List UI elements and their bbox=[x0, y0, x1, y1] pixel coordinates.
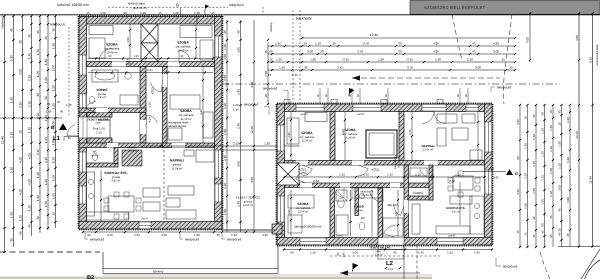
svg-text:45: 45 bbox=[36, 30, 40, 34]
window right-building top W3 bbox=[466, 104, 478, 112]
bedroom3 left wall bbox=[163, 67, 168, 144]
svg-text:27.66 m²: 27.66 m² bbox=[423, 149, 433, 152]
svg-text:1.30: 1.30 bbox=[28, 53, 32, 59]
hall dim line bbox=[88, 72, 213, 74]
dashed pipe curve right bbox=[503, 14, 512, 104]
svg-text:1.10: 1.10 bbox=[233, 108, 239, 112]
downpipe dashed bbox=[68, 27, 70, 117]
svg-text:4.20: 4.20 bbox=[19, 189, 23, 195]
svg-text:10: 10 bbox=[524, 116, 528, 120]
wall entry/kitchen bbox=[404, 165, 409, 238]
svg-text:45: 45 bbox=[223, 30, 227, 34]
svg-text:1.10: 1.10 bbox=[455, 173, 461, 177]
svg-text:30: 30 bbox=[19, 40, 23, 44]
svg-text:90: 90 bbox=[127, 58, 130, 61]
top dimension chains over right building bbox=[302, 37, 515, 39]
svg-text:3.55: 3.55 bbox=[127, 37, 130, 43]
insulation dotted edge right bbox=[222, 16, 224, 229]
svg-text:BELÉPŐ: BELÉPŐ bbox=[388, 203, 399, 207]
terrace edge lines bbox=[222, 229, 277, 231]
wc right wall bbox=[114, 148, 118, 164]
svg-text:1.50: 1.50 bbox=[36, 195, 40, 201]
svg-text:2.15: 2.15 bbox=[36, 149, 40, 155]
terrace door right wall bbox=[215, 150, 223, 178]
chimney shaft right building bbox=[277, 163, 299, 185]
svg-text:lefolyócső: lefolyócső bbox=[1, 15, 5, 28]
gallery dashed line kitchen bbox=[163, 150, 165, 221]
window left wall W5 bbox=[79, 152, 87, 172]
kitchen table and chairs bbox=[108, 196, 134, 212]
svg-text:1.50: 1.50 bbox=[524, 143, 528, 149]
svg-text:2.25: 2.25 bbox=[343, 57, 349, 61]
svg-text:45: 45 bbox=[44, 36, 48, 40]
marker flag top of right building bbox=[349, 88, 354, 94]
svg-text:1.20: 1.20 bbox=[44, 179, 48, 185]
small flag top bbox=[205, 5, 209, 10]
svg-text:4.00: 4.00 bbox=[250, 177, 254, 183]
dashed projection lines to right building bbox=[292, 10, 294, 104]
svg-text:1.50: 1.50 bbox=[532, 134, 536, 140]
left vertical dimension chains bbox=[4, 16, 6, 252]
svg-text:45: 45 bbox=[57, 100, 61, 104]
dashed downpipe from grey bar bbox=[452, 14, 462, 60]
svg-text:sm. parketta: sm. parketta bbox=[296, 207, 311, 210]
svg-text:90: 90 bbox=[290, 250, 294, 254]
svg-text:12.06 m²: 12.06 m² bbox=[298, 210, 309, 213]
tv cabinet bbox=[184, 150, 194, 156]
svg-text:2.50: 2.50 bbox=[237, 89, 241, 95]
svg-text:4.20: 4.20 bbox=[493, 41, 499, 45]
svg-text:3.70: 3.70 bbox=[363, 41, 369, 45]
interior dim verticals right building bbox=[290, 112, 292, 160]
section line to entry bbox=[0, 117, 62, 119]
svg-text:1.20: 1.20 bbox=[133, 55, 139, 58]
svg-text:3.45: 3.45 bbox=[337, 65, 343, 69]
bed szoba3 right bbox=[288, 195, 314, 208]
svg-text:lefolyócső: lefolyócső bbox=[90, 238, 104, 242]
insulation dotted edge bottom bbox=[79, 229, 222, 231]
svg-text:9.81 m²: 9.81 m² bbox=[112, 180, 121, 183]
svg-text:1.50: 1.50 bbox=[418, 250, 424, 254]
svg-text:1.20: 1.20 bbox=[52, 157, 56, 163]
svg-text:2.25: 2.25 bbox=[409, 129, 412, 135]
svg-text:45: 45 bbox=[532, 114, 536, 118]
svg-text:90: 90 bbox=[60, 110, 64, 114]
entry shoe rack stripes bbox=[383, 218, 403, 236]
svg-text:SZOBA: SZOBA bbox=[177, 41, 189, 45]
svg-text:telekhatár: telekhatár bbox=[296, 17, 313, 21]
wall szoba1/szoba2 bbox=[330, 112, 335, 161]
left building left wall bbox=[79, 17, 87, 230]
svg-text:45: 45 bbox=[216, 233, 220, 237]
svg-text:12.40: 12.40 bbox=[370, 33, 378, 37]
svg-text:45: 45 bbox=[558, 232, 562, 236]
corridor bottom wall bbox=[285, 183, 433, 188]
insulation dotted edge left bbox=[78, 16, 80, 229]
svg-text:1.50: 1.50 bbox=[223, 129, 227, 135]
window left wall W5b bbox=[79, 186, 87, 204]
kitchen counters right bbox=[412, 204, 420, 234]
svg-text:2.10: 2.10 bbox=[467, 57, 473, 61]
svg-text:B: B bbox=[51, 125, 55, 131]
bath bottom wall bbox=[79, 108, 146, 113]
svg-text:40: 40 bbox=[264, 94, 268, 98]
svg-text:pel R2: pel R2 bbox=[357, 113, 365, 116]
covered terrace between buildings bbox=[222, 150, 277, 230]
svg-text:SZOBA: SZOBA bbox=[301, 131, 313, 135]
svg-text:1.10: 1.10 bbox=[315, 41, 321, 45]
insulation dotted edge top bbox=[79, 15, 222, 17]
svg-text:6.50: 6.50 bbox=[147, 69, 153, 72]
svg-text:30: 30 bbox=[398, 49, 402, 53]
svg-text:KÖZL.: KÖZL. bbox=[372, 168, 381, 172]
svg-text:2.40: 2.40 bbox=[223, 155, 227, 161]
svg-text:1.20: 1.20 bbox=[28, 205, 32, 211]
middle vertical dimension chains bbox=[226, 20, 228, 232]
wc fixture bbox=[92, 153, 97, 160]
roof overhang dash-dot right building bbox=[222, 83, 560, 85]
svg-text:5.35: 5.35 bbox=[10, 55, 14, 61]
svg-text:45: 45 bbox=[532, 234, 536, 238]
svg-text:1.40: 1.40 bbox=[46, 110, 52, 114]
svg-text:1.40: 1.40 bbox=[342, 252, 346, 258]
svg-text:4.50: 4.50 bbox=[149, 117, 152, 123]
svg-text:30: 30 bbox=[19, 130, 23, 134]
svg-text:1.10: 1.10 bbox=[541, 175, 545, 181]
svg-text:90: 90 bbox=[123, 11, 127, 15]
svg-text:1.20: 1.20 bbox=[223, 44, 227, 50]
dining table right bbox=[453, 176, 473, 190]
svg-text:szomszédos telek: szomszédos telek bbox=[596, 44, 599, 66]
svg-text:3.00: 3.00 bbox=[237, 47, 241, 53]
svg-text:90: 90 bbox=[336, 252, 340, 256]
svg-text:90: 90 bbox=[181, 55, 184, 58]
svg-text:1.50: 1.50 bbox=[173, 11, 179, 15]
svg-text:3.00: 3.00 bbox=[566, 197, 570, 203]
svg-text:lefolyócső: lefolyócső bbox=[50, 23, 65, 27]
svg-text:lefolyócső: lefolyócső bbox=[227, 238, 241, 242]
svg-text:1.30: 1.30 bbox=[28, 127, 32, 133]
svg-text:3.70: 3.70 bbox=[357, 49, 363, 53]
svg-text:4.20: 4.20 bbox=[19, 157, 23, 163]
bath fixtures right bbox=[338, 198, 344, 208]
corridor top wall bbox=[285, 161, 485, 166]
svg-text:2.10: 2.10 bbox=[28, 101, 32, 107]
svg-text:1.10: 1.10 bbox=[532, 161, 536, 167]
svg-text:1.20: 1.20 bbox=[310, 57, 316, 61]
neighbour outbuilding grey bar bbox=[410, 1, 600, 15]
short top vertical 4.00 bbox=[529, 14, 531, 63]
svg-text:B: B bbox=[515, 171, 518, 176]
svg-text:turbócső 100/60 mm: turbócső 100/60 mm bbox=[57, 3, 89, 7]
svg-text:KONYHA ÉTK.: KONYHA ÉTK. bbox=[446, 206, 465, 210]
bathroom fixtures bbox=[92, 70, 118, 82]
svg-text:3.95: 3.95 bbox=[288, 132, 291, 138]
svg-text:lefolyócső: lefolyócső bbox=[503, 265, 517, 269]
svg-text:1.50: 1.50 bbox=[524, 203, 528, 209]
right cluster bottom connector bbox=[558, 245, 600, 247]
svg-text:3.00: 3.00 bbox=[19, 69, 23, 75]
kitchen top wall bbox=[79, 143, 167, 148]
svg-text:1.20: 1.20 bbox=[378, 57, 384, 61]
svg-text:KONYHA+ ÉTK.: KONYHA+ ÉTK. bbox=[104, 171, 127, 175]
bath divider bbox=[355, 188, 359, 216]
svg-text:1.10: 1.10 bbox=[10, 97, 14, 103]
svg-text:1.90: 1.90 bbox=[279, 65, 285, 69]
svg-text:12.40: 12.40 bbox=[588, 176, 592, 184]
svg-text:1.50: 1.50 bbox=[100, 11, 106, 15]
svg-text:1.20: 1.20 bbox=[36, 172, 40, 178]
svg-text:3.00: 3.00 bbox=[307, 49, 313, 53]
wall bath/entry bbox=[378, 188, 383, 238]
svg-text:1.50: 1.50 bbox=[532, 188, 536, 194]
svg-text:1.20: 1.20 bbox=[447, 250, 453, 254]
svg-text:15: 15 bbox=[509, 65, 513, 69]
svg-text:1.60: 1.60 bbox=[435, 57, 441, 61]
svg-text:belet: belet bbox=[96, 121, 101, 124]
svg-text:10: 10 bbox=[558, 228, 562, 232]
svg-text:3.00: 3.00 bbox=[161, 233, 167, 237]
wc bottom wall bbox=[87, 163, 119, 167]
window right-building top W1 bbox=[296, 104, 324, 112]
bottom dimension line left building bbox=[83, 231, 284, 233]
svg-text:30: 30 bbox=[320, 49, 324, 53]
svg-text:7.21 m²: 7.21 m² bbox=[299, 172, 308, 175]
svg-text:átsz 95.cm: átsz 95.cm bbox=[133, 6, 147, 10]
svg-text:45: 45 bbox=[549, 215, 553, 219]
svg-text:2.10: 2.10 bbox=[233, 142, 239, 146]
property boundary line telekhatar bbox=[0, 14, 600, 16]
svg-text:1.10: 1.10 bbox=[549, 191, 553, 197]
svg-text:15: 15 bbox=[269, 57, 273, 61]
svg-text:lefolyócső: lefolyócső bbox=[497, 86, 511, 90]
svg-text:30: 30 bbox=[28, 34, 32, 38]
left building right wall bbox=[215, 17, 223, 230]
entry door bottom bbox=[378, 238, 404, 246]
svg-text:1.50: 1.50 bbox=[549, 125, 553, 131]
svg-text:1.10: 1.10 bbox=[541, 128, 545, 134]
door arcs left building bbox=[99, 49, 112, 62]
living top wall bbox=[163, 143, 215, 148]
svg-text:15: 15 bbox=[516, 230, 520, 234]
svg-text:45: 45 bbox=[472, 49, 476, 53]
insulation dotted edge left right bldg bbox=[275, 104, 277, 245]
svg-text:45: 45 bbox=[264, 50, 268, 54]
arrow under dimension block bbox=[352, 77, 500, 79]
svg-text:2.40: 2.40 bbox=[237, 201, 241, 207]
svg-text:3.00: 3.00 bbox=[493, 49, 499, 53]
flag marker bottom bbox=[353, 263, 359, 270]
bed szoba2 (dark rect) bbox=[366, 130, 397, 158]
svg-text:45: 45 bbox=[541, 230, 545, 234]
svg-text:létkövű sóba: létkövű sóba bbox=[128, 2, 145, 6]
svg-text:3.00: 3.00 bbox=[237, 161, 241, 167]
svg-text:90: 90 bbox=[47, 102, 51, 106]
entry door leaf bbox=[98, 119, 110, 121]
svg-text:90: 90 bbox=[549, 234, 553, 238]
svg-text:45: 45 bbox=[472, 41, 476, 45]
svg-text:15: 15 bbox=[268, 73, 272, 77]
svg-text:6.20: 6.20 bbox=[566, 157, 570, 163]
svg-text:1.25: 1.25 bbox=[44, 137, 48, 143]
svg-text:55x115 cm: 55x115 cm bbox=[398, 156, 401, 168]
svg-text:1.20: 1.20 bbox=[310, 250, 316, 254]
svg-text:3.00: 3.00 bbox=[107, 233, 113, 237]
svg-text:3.95: 3.95 bbox=[516, 119, 520, 125]
svg-text:1.41: 1.41 bbox=[395, 211, 398, 217]
terrace dimension line bbox=[140, 145, 300, 147]
svg-text:45: 45 bbox=[10, 28, 14, 32]
svg-text:1.10: 1.10 bbox=[387, 173, 393, 177]
svg-text:NAPPALI: NAPPALI bbox=[170, 159, 184, 163]
shower tray bbox=[336, 190, 347, 201]
washer note bbox=[352, 188, 382, 198]
svg-text:pel R2: pel R2 bbox=[300, 113, 308, 116]
bedroom3 furniture bbox=[170, 95, 200, 109]
window right-building bottom W1 bbox=[300, 238, 326, 246]
svg-text:2.80: 2.80 bbox=[342, 129, 345, 135]
wall szoba2/nappali bbox=[399, 112, 404, 161]
svg-text:szekrény: szekrény bbox=[127, 150, 137, 153]
svg-text:1.10: 1.10 bbox=[524, 173, 528, 179]
svg-text:2.40: 2.40 bbox=[237, 123, 241, 129]
svg-text:10: 10 bbox=[303, 41, 307, 45]
interior dim line bedroom2 vertical bbox=[195, 24, 197, 59]
svg-text:1.50: 1.50 bbox=[541, 151, 545, 157]
svg-text:30: 30 bbox=[36, 216, 40, 220]
svg-text:2.10: 2.10 bbox=[19, 102, 23, 108]
svg-text:1.20: 1.20 bbox=[66, 103, 72, 107]
pantry closet kamra bbox=[122, 150, 142, 166]
svg-text:FEDETT BELÉPŐ: FEDETT BELÉPŐ bbox=[370, 246, 391, 250]
svg-text:30: 30 bbox=[10, 238, 14, 242]
svg-text:3.00: 3.00 bbox=[352, 250, 358, 254]
svg-text:SZOBA: SZOBA bbox=[180, 109, 192, 113]
svg-text:20: 20 bbox=[541, 112, 545, 116]
svg-text:5.10: 5.10 bbox=[10, 167, 14, 173]
svg-text:1.30: 1.30 bbox=[44, 59, 48, 65]
svg-text:NAPPALI: NAPPALI bbox=[422, 144, 435, 148]
svg-text:2.10: 2.10 bbox=[10, 132, 14, 138]
svg-text:2.32: 2.32 bbox=[313, 179, 319, 183]
svg-text:1.50: 1.50 bbox=[134, 233, 140, 237]
svg-text:belet: belet bbox=[376, 250, 381, 253]
svg-text:4.20: 4.20 bbox=[433, 41, 439, 45]
left building top wall bbox=[79, 17, 222, 25]
window right-building bottom W2 bbox=[437, 238, 463, 246]
window left wall W4 bbox=[79, 94, 87, 108]
svg-text:10: 10 bbox=[549, 110, 553, 114]
hedge line soveny bbox=[0, 251, 100, 253]
svg-text:45: 45 bbox=[558, 110, 562, 114]
svg-text:1.50: 1.50 bbox=[558, 141, 562, 147]
svg-text:30: 30 bbox=[36, 93, 40, 97]
right vertical dimension chains bbox=[519, 105, 521, 247]
north compass symbol bbox=[583, 255, 600, 279]
terrace french door top bbox=[422, 104, 446, 112]
svg-text:pel 92: pel 92 bbox=[449, 235, 456, 238]
svg-text:3.95: 3.95 bbox=[262, 233, 268, 237]
chimney shaft bbox=[141, 24, 158, 43]
svg-text:1.20: 1.20 bbox=[19, 215, 23, 221]
svg-text:45: 45 bbox=[558, 208, 562, 212]
svg-text:lefolyócső: lefolyócső bbox=[244, 103, 258, 107]
svg-text:45: 45 bbox=[532, 216, 536, 220]
window bottom wall W7 bbox=[139, 222, 151, 230]
svg-text:greslap: greslap bbox=[244, 200, 253, 203]
door swing arcs french door bbox=[422, 112, 434, 124]
svg-text:2.50: 2.50 bbox=[223, 75, 227, 81]
kitchen counter bbox=[87, 172, 95, 216]
entry recess side walls bbox=[87, 113, 112, 118]
interior dim vertical szoba3 bbox=[202, 66, 204, 143]
right building top wall bbox=[277, 104, 492, 112]
svg-text:15: 15 bbox=[524, 232, 528, 236]
svg-text:FEDETT BELÉPŐ: FEDETT BELÉPŐ bbox=[88, 117, 109, 121]
insulation dotted edge right right bldg bbox=[492, 104, 494, 245]
svg-text:15: 15 bbox=[52, 212, 56, 216]
svg-text:sövény: sövény bbox=[269, 22, 273, 32]
svg-text:greslap: greslap bbox=[91, 154, 99, 157]
svg-text:13.40: 13.40 bbox=[575, 131, 579, 139]
svg-text:turbócső 100/60 mm: turbócső 100/60 mm bbox=[294, 225, 322, 229]
svg-text:90: 90 bbox=[516, 156, 520, 160]
svg-text:1.10: 1.10 bbox=[549, 146, 553, 152]
insulation dotted edge bottom right bldg bbox=[277, 245, 492, 247]
svg-text:90: 90 bbox=[490, 167, 494, 171]
svg-text:1.20: 1.20 bbox=[223, 183, 227, 189]
svg-text:pel 92: pel 92 bbox=[142, 217, 149, 220]
long vertical line right edge bbox=[592, 14, 594, 247]
entry recess opening bbox=[79, 117, 112, 138]
svg-text:lefolyócső: lefolyócső bbox=[229, 3, 244, 7]
svg-text:4.20: 4.20 bbox=[433, 49, 439, 53]
svg-text:greslap: greslap bbox=[112, 176, 121, 179]
svg-text:45: 45 bbox=[19, 231, 23, 235]
kamra shelves bbox=[410, 168, 427, 176]
svg-text:WC: WC bbox=[361, 217, 365, 220]
level marker B right bbox=[506, 169, 513, 175]
svg-text:3.40: 3.40 bbox=[200, 109, 203, 115]
svg-text:12.06 m²: 12.06 m² bbox=[302, 139, 313, 142]
wall szoba3/bath bbox=[330, 188, 335, 238]
svg-text:1.50: 1.50 bbox=[474, 250, 480, 254]
svg-text:SZOBA: SZOBA bbox=[297, 202, 309, 206]
door arcs right building bbox=[302, 165, 312, 176]
svg-text:6.95 m²: 6.95 m² bbox=[98, 96, 107, 99]
svg-text:1.20: 1.20 bbox=[140, 11, 146, 15]
kamra side wall bbox=[429, 165, 433, 200]
svg-text:2.15: 2.15 bbox=[44, 157, 48, 163]
bedroom2 furniture bbox=[180, 26, 212, 38]
svg-text:lefolyócső: lefolyócső bbox=[263, 87, 277, 91]
entry porch right building bbox=[378, 245, 404, 259]
svg-text:4.20: 4.20 bbox=[28, 153, 32, 159]
corridor dimension line bbox=[285, 176, 485, 178]
window left wall of right building bbox=[277, 125, 285, 151]
svg-text:KAMRA: KAMRA bbox=[413, 192, 423, 195]
svg-text:2.32: 2.32 bbox=[449, 179, 455, 183]
svg-text:45: 45 bbox=[86, 11, 90, 15]
long vertical line 5.20 bbox=[578, 14, 580, 247]
top wall joint line bbox=[196, 17, 198, 25]
svg-text:lefolyócső: lefolyócső bbox=[185, 238, 199, 242]
svg-text:4.20: 4.20 bbox=[566, 117, 570, 123]
svg-text:12.40: 12.40 bbox=[250, 126, 254, 134]
svg-text:1.50: 1.50 bbox=[44, 201, 48, 207]
svg-text:10.08 m²: 10.08 m² bbox=[106, 51, 117, 55]
right building left wall bbox=[277, 104, 285, 245]
